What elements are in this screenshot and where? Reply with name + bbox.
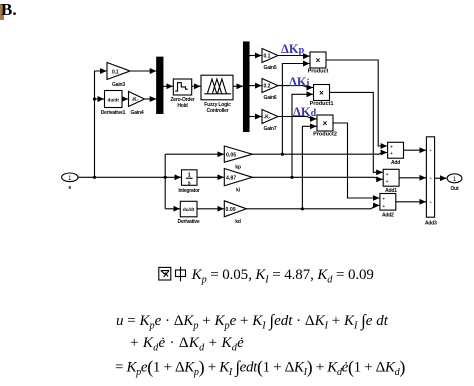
input port e [62, 173, 78, 191]
wire kd-row up to Product2 second input [302, 126, 316, 209]
svg-text:Add2: Add2 [382, 212, 394, 218]
wire demux to Gain6 [249, 85, 262, 87]
wire Derivative to kd gain [197, 208, 224, 210]
block Add2 [380, 194, 396, 219]
output port Out [447, 174, 462, 192]
wire ki row to Add1 [252, 177, 382, 179]
wire kp-row up to Product second input [282, 64, 309, 155]
demux [244, 42, 250, 132]
wire Add to Add3 [404, 149, 427, 151]
svg-text:Product1: Product1 [310, 101, 334, 107]
wire branch vertical kp/kd [164, 154, 166, 209]
svg-text:Gain6: Gain6 [264, 95, 277, 101]
formula line +Kd [130, 335, 244, 353]
wire kd row to Add2 [246, 205, 379, 208]
svg-text:ΔKd: ΔKd [293, 105, 317, 119]
wire Add3 to Out [435, 177, 447, 179]
block Add3 [425, 137, 437, 227]
gain Gain6 [262, 79, 278, 102]
wire Gain3 to mux [130, 70, 156, 72]
svg-text:×: × [319, 89, 324, 98]
svg-text:kp: kp [235, 165, 241, 171]
node junction on kd row [301, 207, 304, 210]
wire to Derivative [165, 208, 180, 210]
wire to kp gain [165, 153, 224, 155]
svg-text:Product2: Product2 [313, 132, 337, 138]
wire branch up to Gain3 [95, 71, 107, 177]
wire Product1 to Add1 [330, 92, 383, 172]
svg-text:Add: Add [391, 160, 400, 166]
gain Gain3 [107, 63, 130, 89]
wire Add2 to Add3 [396, 201, 426, 203]
gain ki [224, 169, 252, 194]
formula line = [115, 357, 405, 378]
svg-text:Gain4: Gain4 [131, 110, 144, 116]
svg-text:Controller: Controller [207, 108, 229, 114]
wire Derivative1 to Gain4 [122, 98, 128, 100]
block Add1 [383, 169, 399, 194]
block Derivative1 [101, 91, 126, 117]
wire demux to Gain5 [249, 55, 262, 57]
block Zero-Order Hold [170, 79, 194, 109]
header letter B. [1, 0, 17, 20]
wire Gain5 to Product [278, 55, 310, 58]
svg-text:+: + [382, 197, 385, 203]
block Add [388, 142, 404, 166]
svg-text:s: s [188, 180, 191, 186]
svg-text:+: + [429, 200, 432, 205]
svg-text:ΔKi: ΔKi [289, 75, 310, 89]
block Product1 [310, 85, 334, 108]
svg-text:0.2: 0.2 [264, 84, 271, 90]
wire kp row to Add [252, 153, 387, 155]
svg-text:+: + [429, 148, 432, 153]
svg-text:×: × [316, 56, 321, 65]
svg-text:Out: Out [450, 186, 459, 192]
svg-text:Integrator: Integrator [178, 188, 200, 194]
mux [157, 57, 163, 113]
block Derivative [178, 201, 200, 225]
svg-text:Hold: Hold [177, 103, 187, 109]
svg-text:Derivative: Derivative [178, 219, 200, 225]
gain Gain7 [262, 110, 278, 133]
node junction derivative1-branch [93, 97, 96, 100]
svg-text:0.1: 0.1 [112, 69, 119, 75]
wire ZOH to Fuzzy Logic Controller [192, 85, 201, 87]
formula caption line [158, 266, 374, 285]
gain kp [224, 146, 252, 171]
label delta-Ki [289, 75, 310, 89]
block Product [308, 52, 329, 75]
svg-text:e: e [69, 185, 72, 191]
wire Gain7 to Product2 [278, 117, 317, 119]
node junction e-branch-up [93, 176, 96, 179]
svg-text:+: + [386, 172, 389, 178]
svg-text:ki: ki [236, 188, 241, 194]
wire Integrator to ki gain [197, 176, 224, 178]
wire Product2 to Add2 [333, 123, 380, 198]
svg-text:+: + [382, 204, 385, 210]
svg-text:Gain3: Gain3 [112, 82, 125, 88]
label delta-Kp [281, 42, 305, 56]
svg-text:+: + [386, 179, 389, 185]
svg-text:Add3: Add3 [425, 221, 437, 227]
svg-text:ΔKp: ΔKp [281, 42, 305, 56]
svg-text:kd: kd [235, 219, 241, 225]
block Integrator [178, 170, 200, 194]
wire FLC to demux [234, 85, 244, 87]
wire Gain4 to mux [145, 98, 157, 100]
wire branch to Derivative1 [95, 98, 105, 100]
svg-text:+: + [390, 151, 393, 157]
svg-text:Gain5: Gain5 [264, 65, 277, 71]
svg-text:0.1: 0.1 [264, 54, 271, 60]
block Product2 [313, 115, 337, 138]
svg-text:4.87: 4.87 [226, 176, 236, 182]
gain Gain5 [262, 49, 278, 72]
node junction at integrator branch [164, 176, 167, 179]
svg-text:+: + [390, 144, 393, 150]
wire Add1 to Add3 [399, 177, 426, 179]
svg-text:Derivative1: Derivative1 [101, 110, 126, 116]
wire Product to Add [326, 60, 387, 146]
formula line u= [116, 311, 388, 331]
svg-text:0.05: 0.05 [226, 153, 236, 159]
svg-text:du/dt: du/dt [107, 98, 119, 103]
svg-text:du/dt: du/dt [183, 207, 195, 212]
svg-text:+: + [429, 176, 432, 181]
wire e main horizontal [78, 176, 181, 178]
gain kd [224, 201, 246, 225]
wire mux to Zero-Order Hold [163, 85, 173, 87]
gain Gain4 [129, 92, 145, 117]
svg-text:-K-: -K- [264, 115, 271, 121]
node junction on ki row [290, 176, 293, 179]
wire Gain6 to Product1 [278, 86, 313, 88]
label delta-Kd [293, 105, 317, 119]
svg-text:-K-: -K- [132, 97, 139, 103]
block Fuzzy Logic Controller [201, 75, 233, 114]
wire demux to Gain7 [249, 116, 262, 118]
svg-text:Gain7: Gain7 [264, 126, 277, 132]
svg-text:×: × [323, 119, 328, 128]
node junction on kp row [281, 153, 284, 156]
wire ki-row up to Product1 second input [292, 94, 313, 177]
brown margin mark [0, 4, 4, 20]
svg-text:0.09: 0.09 [226, 207, 236, 213]
svg-text:Product: Product [308, 69, 329, 75]
